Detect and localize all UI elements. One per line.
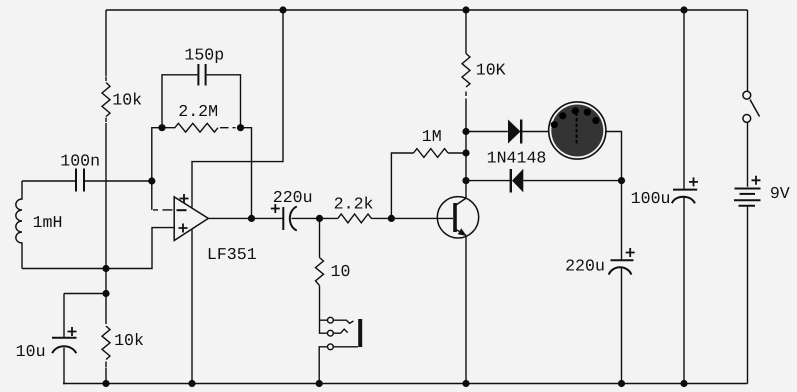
resistor R4 2.2k [338, 214, 372, 223]
wire top +9V rail [106, 9, 748, 11]
switch S1 lower contact [743, 115, 751, 123]
meter M1 outer ring [549, 102, 606, 159]
wire 100n to node A [85, 180, 152, 182]
svg-text:LF351: LF351 [207, 245, 257, 264]
wire top diode left [466, 131, 508, 133]
meter M1 dark face [551, 105, 603, 157]
wire lower diode right [523, 180, 621, 182]
diode D1 1N4148 (to meter) [508, 120, 521, 144]
battery B1 9V plates [735, 188, 761, 190]
wire left branch vertical top (to R 10k) [105, 10, 107, 76]
wire 150p right side [207, 75, 241, 128]
svg-text:1mH: 1mH [33, 213, 63, 232]
resistor R3 2.2M [162, 123, 218, 132]
wire left branch vertical middle [105, 123, 107, 320]
svg-text:2.2k: 2.2k [334, 195, 374, 214]
wire meter right [606, 132, 622, 181]
svg-text:150p: 150p [184, 46, 224, 65]
wire 220u#2 branch [621, 181, 623, 260]
wire node A vertical (2.2M left to - input) [152, 128, 162, 210]
node top rail / 10K [462, 6, 469, 13]
wire cap to node B [292, 217, 338, 219]
capacitor C1 100n [76, 169, 84, 192]
wire coil top / 100n line [22, 180, 75, 182]
wire 1M right [448, 152, 466, 154]
wire battery branch top [747, 10, 749, 91]
resistor R7 10K (vertical) [462, 54, 470, 97]
svg-text:10K: 10K [476, 61, 506, 80]
wire output [208, 217, 282, 219]
svg-text:220u: 220u [273, 188, 313, 207]
node base junction [388, 215, 395, 222]
jack J1 tip contact [328, 317, 334, 323]
node ground / emitter [462, 380, 469, 387]
resistor R2 10k (vertical, left bottom) [102, 320, 110, 368]
plus marker C4 [271, 204, 280, 213]
jack ring spring [333, 329, 347, 333]
wire left branch vertical bottom [105, 368, 107, 384]
svg-text:10u: 10u [16, 342, 46, 361]
resistor R6 10 (vertical) [316, 258, 324, 286]
meter scale dots [551, 107, 600, 128]
wire 100u to ground [683, 197, 685, 384]
node meter right / diode [618, 177, 625, 184]
wire 1M branch up [391, 153, 413, 218]
node top rail / 100u [680, 6, 687, 13]
capacitor C4 220u plates [282, 207, 284, 230]
capacitor C2 10u plates [52, 337, 77, 339]
node 2.2M left [158, 124, 165, 131]
plus marker battery [752, 176, 761, 185]
wire 10 resistor branch [319, 218, 321, 257]
wire op-amp V- to ground [191, 229, 193, 383]
transistor base bar [453, 203, 457, 232]
wire 10 to jack [320, 286, 328, 334]
node output junction [248, 215, 255, 222]
node ground / 220u [618, 380, 625, 387]
plus marker C6 [689, 177, 698, 186]
wire dashed into - input [153, 209, 173, 211]
wire battery to ground [747, 207, 749, 384]
svg-text:10: 10 [331, 262, 351, 281]
op-amp minus input marker [177, 209, 187, 211]
wire coil bottom to +input riser [22, 228, 174, 269]
wire diode to meter [522, 131, 549, 133]
node collector / top diode [462, 128, 469, 135]
wire lower diode left [466, 180, 510, 182]
node ground / 10k [102, 380, 109, 387]
wire 10K to collector [465, 99, 467, 199]
capacitor C6 100u plates [673, 189, 697, 191]
svg-text:2.2M: 2.2M [178, 102, 218, 121]
wire 10u branch top [64, 294, 106, 338]
wire 100u branch [683, 10, 685, 189]
wire switch to battery [747, 123, 749, 187]
jack J1 sleeve contact [328, 344, 334, 350]
wire 150p left vertical [162, 75, 197, 128]
svg-text:100n: 100n [60, 151, 100, 170]
switch S1 lever [750, 100, 760, 117]
transistor emitter diagonal [456, 230, 466, 236]
svg-text:220u: 220u [565, 257, 605, 276]
transistor emitter arrow [458, 228, 467, 236]
inductor L1 1mH [16, 181, 22, 269]
jack tip spring [333, 320, 353, 323]
node collector / lower diode [462, 177, 469, 184]
transistor Q1 circle [437, 197, 478, 238]
plus marker C5 [626, 248, 635, 257]
svg-text:1M: 1M [422, 127, 442, 146]
transistor collector diagonal [456, 198, 466, 205]
wire bottom ground rail [63, 383, 748, 385]
meter needle [576, 113, 578, 145]
svg-text:9V: 9V [770, 184, 790, 203]
node collector / 1M [462, 149, 469, 156]
op-amp V+ plus marker [180, 194, 189, 203]
capacitor C3 150p [198, 64, 205, 86]
wire feedback stub to output [241, 128, 252, 219]
node ground / 100u [680, 380, 687, 387]
wire 2.2k to base [371, 217, 453, 219]
jack J1 ring contact [328, 330, 334, 336]
node A (100n / feedback) [148, 177, 155, 184]
diode D2 1N4148 [510, 169, 512, 193]
capacitor C5 220u plates [611, 259, 634, 261]
jack plug bar [358, 319, 362, 347]
switch S1 upper contact [743, 91, 751, 99]
wire 10u bottom [63, 348, 65, 384]
op-amp U1 LF351 triangle [174, 197, 208, 241]
jack sleeve wires [319, 347, 358, 384]
svg-text:10k: 10k [112, 91, 142, 110]
wire 220u#2 to ground [621, 268, 623, 384]
svg-text:10k: 10k [114, 331, 144, 350]
node coil bottom [102, 265, 109, 272]
op-amp plus input marker [179, 224, 188, 233]
wire V+ supply from rail [192, 10, 283, 207]
node B (cap / 2.2k / 10) [316, 215, 323, 222]
plus marker C2 [68, 327, 77, 336]
wire dashed 2.2M right [220, 127, 236, 129]
node 2.2M right [237, 124, 244, 131]
wire main right vertical top [465, 10, 467, 54]
svg-text:1N4148: 1N4148 [487, 149, 547, 168]
node top rail / V+ [279, 6, 286, 13]
node ground / op-amp V- [188, 380, 195, 387]
node ground / jack [316, 380, 323, 387]
resistor R5 1M [414, 149, 449, 158]
wire emitter to ground [465, 236, 467, 384]
resistor R1 10k (vertical, left top) [102, 77, 110, 123]
svg-text:100u: 100u [631, 189, 671, 208]
node 10u top [102, 290, 109, 297]
